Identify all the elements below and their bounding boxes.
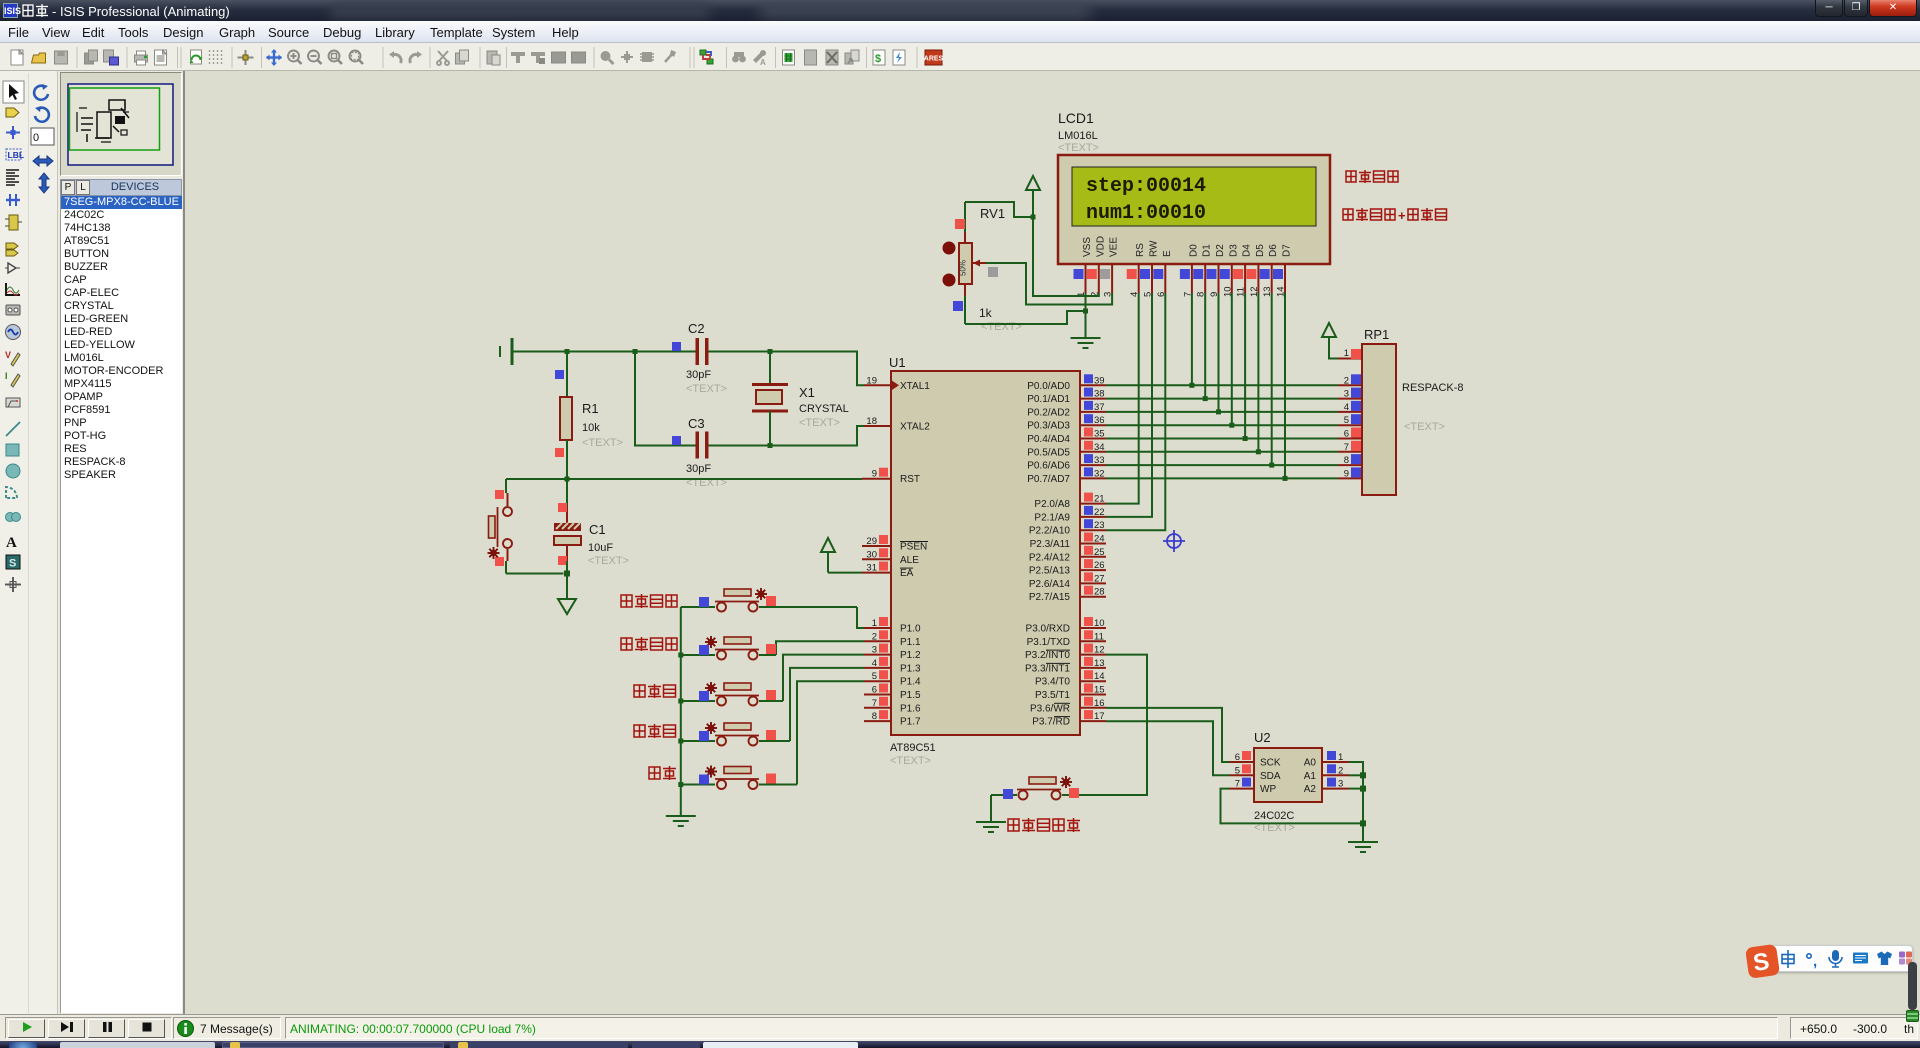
svg-text:D3: D3	[1228, 244, 1239, 257]
resistor R1 10k	[555, 352, 623, 480]
ground below LCD VSS	[1071, 338, 1101, 348]
svg-text:37: 37	[1094, 402, 1105, 413]
svg-text:30pF: 30pF	[686, 463, 711, 475]
svg-text:9: 9	[872, 469, 877, 480]
svg-text:50%: 50%	[959, 260, 968, 276]
svg-text:P2.4/A12: P2.4/A12	[1029, 552, 1071, 563]
lcd pin 13 D6	[1260, 264, 1274, 297]
svg-text:P1.3: P1.3	[900, 663, 921, 674]
svg-text:30pF: 30pF	[686, 369, 711, 381]
lcd pin 12 D5	[1246, 264, 1260, 297]
svg-text:P3.6/WR: P3.6/WR	[1030, 703, 1070, 714]
svg-text:WP: WP	[1260, 784, 1276, 795]
svg-text:A: A	[760, 58, 766, 67]
svg-text:A2: A2	[1304, 784, 1317, 795]
annotation store index and value	[1343, 208, 1447, 223]
pin 33 P0.6/AD6	[1027, 454, 1106, 472]
svg-text:11: 11	[1094, 631, 1104, 642]
svg-text:D4: D4	[1242, 244, 1253, 257]
svg-text:A: A	[6, 535, 17, 551]
lcd text line2 num1:00010	[1086, 202, 1206, 225]
svg-text:8: 8	[872, 711, 877, 722]
lcd pin 3 VEE	[1100, 264, 1114, 297]
svg-text:P0.1/AD1: P0.1/AD1	[1027, 394, 1070, 405]
push button clear-store	[681, 588, 864, 628]
svg-text:PSEN: PSEN	[900, 542, 927, 553]
pin 27 P2.6/A14	[1029, 572, 1106, 590]
svg-text:U2: U2	[1254, 730, 1271, 745]
u2 pin 2 A1	[1304, 764, 1349, 782]
svg-text:P0.0/AD0: P0.0/AD0	[1027, 381, 1070, 392]
rp1 pin 3	[1338, 388, 1362, 400]
lcd pin 4 RS	[1127, 264, 1141, 297]
wire VEE to RV1 wiper	[986, 263, 1112, 305]
eeprom U2 24C02C body	[1254, 730, 1322, 834]
svg-text:VSS: VSS	[1082, 237, 1093, 257]
svg-text:<TEXT>: <TEXT>	[588, 555, 629, 567]
wire RV1 bottom to ground net	[965, 311, 1086, 324]
junction rail	[678, 653, 683, 658]
lcd pin 5 RW	[1140, 264, 1154, 297]
junction WP-ground	[1360, 820, 1366, 826]
pin 18 XTAL2	[864, 416, 930, 433]
wire P0.3 to RP1 pin 5	[1106, 424, 1338, 426]
wire RV1 top to VCC	[965, 202, 1033, 217]
lcd pin names	[1082, 236, 1293, 257]
svg-text:13: 13	[1094, 658, 1105, 669]
wire LCD D0 down to bus	[1191, 293, 1193, 385]
pin 12 P3.2/INT0	[1025, 644, 1106, 662]
svg-text:10: 10	[1094, 618, 1105, 629]
svg-text:6: 6	[1235, 752, 1240, 763]
junction A2	[1360, 786, 1366, 792]
junction RST at R1/C1	[565, 477, 570, 482]
svg-text:D6: D6	[1268, 244, 1279, 257]
rp1 pin 4	[1338, 401, 1362, 413]
pin 29 PSEN	[862, 535, 928, 553]
wire LCD D1 down to bus	[1204, 293, 1206, 399]
svg-text:5: 5	[872, 671, 877, 682]
push button previous	[681, 655, 864, 706]
wire P0.6 to RP1 pin 8	[1106, 464, 1338, 466]
svg-text:<TEXT>: <TEXT>	[1058, 142, 1099, 154]
u2 pin 6 SCK	[1230, 751, 1281, 769]
svg-text:P1.4: P1.4	[900, 677, 921, 688]
capacitor C1 10uF electrolytic	[554, 479, 629, 574]
svg-text:22: 22	[1094, 507, 1105, 518]
svg-text:<TEXT>: <TEXT>	[686, 383, 727, 395]
junction C3 wire at crystal bottom	[768, 443, 773, 448]
svg-text:17: 17	[1094, 711, 1105, 722]
pin 37 P0.2/AD2	[1027, 401, 1106, 419]
svg-text:P1.7: P1.7	[900, 717, 921, 728]
wire U2 WP to ground rail	[1221, 789, 1364, 824]
svg-text:10uF: 10uF	[588, 542, 613, 554]
svg-text:21: 21	[1094, 494, 1105, 505]
junction D4	[1243, 436, 1248, 441]
power arrow at EA	[821, 538, 862, 573]
wire VDD to VCC	[1033, 190, 1099, 296]
lcd pin 9 D2	[1207, 264, 1221, 297]
pin 10 P3.0/RXD	[1026, 617, 1106, 635]
pin 13 P3.3/INT1	[1025, 657, 1106, 675]
svg-text:P2.7/A15: P2.7/A15	[1029, 592, 1071, 603]
svg-text:P3.4/T0: P3.4/T0	[1035, 677, 1070, 688]
wire P0.7 to RP1 pin 9	[1106, 477, 1338, 479]
lcd LCD1 LM016L	[1058, 110, 1330, 264]
pin 11 P3.1/TXD	[1027, 630, 1106, 648]
label clear-steps	[621, 637, 677, 651]
wire LCD D6 down to bus	[1271, 293, 1273, 465]
svg-text:P2.0/A8: P2.0/A8	[1034, 499, 1070, 510]
pin 4 P1.3	[864, 657, 921, 675]
pin 16 P3.6/WR	[1030, 697, 1106, 715]
label clear-store	[621, 594, 677, 608]
svg-text:P1.6: P1.6	[900, 703, 921, 714]
pin 24 P2.3/A11	[1030, 533, 1106, 551]
wire RST net	[506, 478, 862, 480]
svg-text:P3.1/TXD: P3.1/TXD	[1027, 637, 1070, 648]
svg-text:P3.2/INT0: P3.2/INT0	[1025, 650, 1070, 661]
wire RS to P2.0	[1106, 293, 1139, 504]
svg-text:CRYSTAL: CRYSTAL	[799, 403, 849, 415]
svg-text:RESPACK-8: RESPACK-8	[1402, 382, 1464, 394]
svg-text:V: V	[5, 350, 11, 360]
svg-text:39: 39	[1094, 375, 1105, 386]
wire P0.4 to RP1 pin 6	[1106, 438, 1338, 440]
pin 9 RST	[862, 468, 920, 486]
rp1 pin 1	[1338, 348, 1362, 359]
pin 14 P3.4/T0	[1035, 670, 1106, 688]
pin 8 P1.7	[864, 710, 921, 728]
svg-text:P3.7/RD: P3.7/RD	[1032, 717, 1070, 728]
svg-text:I: I	[5, 371, 8, 381]
svg-text:A1: A1	[1304, 771, 1317, 782]
svg-text:5: 5	[1235, 765, 1240, 776]
junction on VCC rail at C3 branch	[633, 349, 638, 354]
svg-text:26: 26	[1094, 560, 1105, 571]
potentiometer RV1 1k	[943, 202, 1022, 333]
svg-text:P0.4/AD4: P0.4/AD4	[1027, 434, 1070, 445]
svg-text:1: 1	[1344, 348, 1349, 359]
svg-text:step:00014: step:00014	[1086, 175, 1206, 198]
pin 35 P0.4/AD4	[1027, 428, 1106, 446]
ground vibration sensor	[976, 822, 1006, 832]
svg-text:P3.0/RXD: P3.0/RXD	[1026, 624, 1070, 635]
ground button rail	[666, 816, 696, 826]
junction A1	[1360, 772, 1366, 778]
wire U2 A0-A2 to ground	[1349, 762, 1363, 842]
svg-text:D1: D1	[1202, 244, 1213, 257]
svg-text:D0: D0	[1188, 244, 1199, 257]
lcd pin 10 D3	[1220, 264, 1234, 297]
junction rail	[678, 782, 683, 787]
svg-text:32: 32	[1094, 468, 1105, 479]
pin 19 XTAL1	[864, 375, 930, 392]
svg-text:7: 7	[1344, 442, 1349, 453]
svg-text:<TEXT>: <TEXT>	[1404, 421, 1445, 433]
svg-text:C1: C1	[589, 522, 606, 537]
rp1 pin 6	[1338, 428, 1362, 440]
svg-text:31: 31	[866, 563, 877, 574]
wire P0.5 to RP1 pin 7	[1106, 451, 1338, 453]
rp1 pin 2	[1338, 374, 1362, 386]
svg-text:7: 7	[872, 698, 877, 709]
svg-text:D7: D7	[1282, 244, 1293, 257]
svg-text:2: 2	[1338, 765, 1343, 776]
svg-text:+: +	[1398, 208, 1406, 223]
wire LCD D4 down to bus	[1244, 293, 1246, 439]
svg-text:3: 3	[1344, 389, 1349, 400]
wire P3.7 to U2 SDA	[1106, 721, 1230, 775]
wire C2 right to XTAL1	[709, 352, 865, 386]
svg-text:RP1: RP1	[1364, 327, 1389, 342]
pin 30 ALE	[862, 548, 919, 566]
label previous	[634, 684, 676, 698]
svg-text:30: 30	[866, 549, 877, 560]
lcd pin 8 D1	[1193, 264, 1207, 297]
wire P0.0 to RP1 pin 2	[1106, 384, 1338, 386]
svg-text:R1: R1	[582, 401, 599, 416]
lcd pin 6 E	[1153, 264, 1167, 297]
svg-text:LCD1: LCD1	[1058, 110, 1094, 126]
u2 pin 1 A0	[1304, 751, 1349, 769]
svg-text:P3.5/T1: P3.5/T1	[1035, 690, 1070, 701]
svg-text:EA: EA	[900, 568, 914, 579]
resistor pack RP1 RESPACK-8	[1362, 327, 1464, 495]
wire P0.2 to RP1 pin 4	[1106, 411, 1338, 413]
svg-text:10k: 10k	[582, 422, 600, 434]
wire E to P2.2	[1106, 293, 1165, 530]
wire VCC rail down to C3	[635, 352, 696, 446]
svg-text:VDD: VDD	[1095, 236, 1106, 257]
junction VCC-RV1	[1031, 215, 1036, 220]
svg-text:24C02C: 24C02C	[1254, 810, 1294, 822]
svg-text:ALE: ALE	[900, 555, 919, 566]
pin 25 P2.4/A12	[1029, 546, 1106, 564]
wire LCD D3 down to bus	[1231, 293, 1233, 425]
lcd pin 14 D7	[1273, 264, 1287, 297]
svg-text:<TEXT>: <TEXT>	[890, 755, 931, 767]
pin 3 P1.2	[864, 644, 921, 662]
svg-text:14: 14	[1094, 671, 1105, 682]
svg-text:P2.5/A13: P2.5/A13	[1029, 566, 1071, 577]
svg-text:P1.1: P1.1	[900, 637, 921, 648]
junction D2	[1216, 409, 1221, 414]
pin 31 EA	[862, 562, 914, 580]
label store	[649, 766, 676, 780]
wire C3 right to XTAL2	[709, 426, 865, 446]
svg-text:0: 0	[33, 132, 39, 144]
svg-text:28: 28	[1094, 587, 1105, 598]
junction C1 bottom	[564, 571, 570, 577]
svg-text:U1: U1	[889, 355, 906, 370]
pin 32 P0.7/AD7	[1027, 467, 1106, 485]
capacitor C3 30pF	[672, 416, 727, 489]
wire RW to P2.1	[1106, 293, 1152, 517]
svg-text:3: 3	[872, 645, 877, 656]
mouse crosshair cursor	[1163, 530, 1185, 552]
svg-text:34: 34	[1094, 442, 1105, 453]
svg-text:8: 8	[1344, 455, 1349, 466]
wire P3.2 to vibration sensor	[1080, 655, 1147, 795]
svg-text:RST: RST	[900, 474, 920, 485]
label vibration sensor	[1008, 818, 1080, 832]
svg-text:$: $	[875, 53, 881, 65]
wire LCD D2 down to bus	[1218, 293, 1220, 412]
svg-text:33: 33	[1094, 455, 1105, 466]
svg-text:num1:00010: num1:00010	[1086, 202, 1206, 225]
svg-text:19: 19	[866, 375, 877, 386]
pin 17 P3.7/RD	[1032, 710, 1106, 728]
push button next	[681, 668, 864, 746]
svg-text:P0.5/AD5: P0.5/AD5	[1027, 447, 1070, 458]
junction D1	[1203, 396, 1208, 401]
junction on VCC rail at crystal branch	[768, 349, 773, 354]
wire button common rail	[680, 607, 682, 815]
svg-text:<TEXT>: <TEXT>	[981, 321, 1022, 333]
lcd pin 7 D0	[1180, 264, 1194, 297]
push button clear-steps	[681, 636, 864, 660]
junction on VCC rail at R1 top	[565, 349, 570, 354]
wire VCC rail to C2 left	[512, 351, 696, 353]
svg-text:RS: RS	[1135, 243, 1146, 257]
svg-text:29: 29	[866, 536, 877, 547]
pin 26 P2.5/A13	[1029, 559, 1106, 577]
svg-text:5: 5	[1344, 415, 1349, 426]
svg-text:P2.2/A10: P2.2/A10	[1029, 526, 1071, 537]
capacitor C2 30pF	[672, 321, 727, 395]
svg-text:P2.3/A11: P2.3/A11	[1030, 539, 1071, 550]
svg-text:P0.2/AD2: P0.2/AD2	[1027, 407, 1070, 418]
pin 2 P1.1	[864, 630, 921, 648]
svg-text:9: 9	[1344, 468, 1349, 479]
push button store	[681, 681, 864, 789]
pin 34 P0.5/AD5	[1027, 441, 1106, 459]
junction D3	[1229, 423, 1234, 428]
svg-text:RV1: RV1	[980, 206, 1005, 221]
wire VSS to ground	[1085, 293, 1087, 338]
svg-text:P1.2: P1.2	[900, 650, 921, 661]
svg-text:E: E	[1162, 250, 1173, 257]
lcd pin 11 D4	[1233, 264, 1247, 297]
svg-text:P1.5: P1.5	[900, 690, 921, 701]
pin 36 P0.3/AD3	[1027, 414, 1106, 432]
push button reset	[488, 479, 564, 574]
pin 7 P1.6	[864, 697, 921, 715]
svg-text:6: 6	[1344, 429, 1349, 440]
rp1 pin 7	[1338, 441, 1362, 453]
svg-text:2: 2	[872, 631, 877, 642]
wire LCD D5 down to bus	[1257, 293, 1259, 452]
svg-text:P0.3/AD3: P0.3/AD3	[1027, 421, 1070, 432]
lcd pin 2 VDD	[1087, 264, 1101, 297]
svg-text:X1: X1	[799, 385, 815, 400]
svg-text:P2.6/A14: P2.6/A14	[1029, 579, 1071, 590]
svg-text:15: 15	[1094, 685, 1105, 696]
annotation current steps	[1346, 170, 1398, 183]
wire C1 bottom to ground arrow	[566, 574, 568, 599]
svg-text:7: 7	[1235, 779, 1240, 790]
u2 pin 7 WP	[1230, 778, 1277, 796]
pin 38 P0.1/AD1	[1027, 388, 1106, 406]
junction D6	[1269, 463, 1274, 468]
ground U2	[1348, 842, 1378, 852]
svg-text:6: 6	[872, 685, 877, 696]
svg-text:D5: D5	[1255, 244, 1266, 257]
svg-text:RW: RW	[1149, 240, 1160, 257]
svg-text:18: 18	[866, 416, 877, 427]
mcu U1 AT89C51 body	[889, 355, 1080, 767]
u2 pin 5 SDA	[1230, 764, 1281, 782]
wire vibration button to ground	[990, 795, 992, 822]
svg-text:23: 23	[1094, 520, 1105, 531]
wire P0.1 to RP1 pin 3	[1106, 398, 1338, 400]
junction D5	[1256, 449, 1261, 454]
pin 28 P2.7/A15	[1029, 586, 1106, 604]
ground arrow below C1	[558, 599, 576, 614]
svg-text:P0.6/AD6: P0.6/AD6	[1027, 461, 1070, 472]
svg-text:2: 2	[1344, 375, 1349, 386]
svg-text:SDA: SDA	[1260, 771, 1281, 782]
power arrow LCD VCC	[1026, 176, 1040, 190]
svg-text:C3: C3	[688, 416, 705, 431]
svg-text:24: 24	[1094, 534, 1105, 545]
svg-text:4: 4	[872, 658, 877, 669]
wire P3.6 to U2 SCK	[1106, 708, 1230, 762]
power arrow RP1	[1322, 323, 1338, 359]
pin 21 P2.0/A8	[1034, 493, 1106, 511]
pin 6 P1.5	[864, 684, 921, 702]
power terminal VCC (crystal rail)	[500, 338, 512, 365]
wire LCD D7 down to bus	[1284, 293, 1286, 478]
svg-text:1k: 1k	[979, 306, 993, 320]
svg-text:1: 1	[1338, 752, 1343, 763]
svg-text:VEE: VEE	[1109, 237, 1120, 257]
svg-text:LBL: LBL	[8, 150, 25, 160]
pin 15 P3.5/T1	[1035, 684, 1106, 702]
pin 1 P1.0	[864, 617, 921, 635]
svg-text:S: S	[9, 558, 16, 570]
pin 23 P2.2/A10	[1029, 519, 1106, 537]
svg-text:<TEXT>: <TEXT>	[582, 437, 623, 449]
svg-text:SCK: SCK	[1260, 758, 1281, 769]
crystal X1	[752, 352, 849, 446]
rp1 pin 9	[1338, 467, 1362, 479]
svg-text:<TEXT>: <TEXT>	[799, 417, 840, 429]
svg-text:P0.7/AD7: P0.7/AD7	[1027, 474, 1070, 485]
svg-text:1: 1	[872, 618, 877, 629]
label next	[634, 724, 676, 738]
svg-text:XTAL2: XTAL2	[900, 422, 930, 433]
svg-text:XTAL1: XTAL1	[900, 381, 930, 392]
pin 22 P2.1/A9	[1034, 506, 1106, 524]
svg-text:D2: D2	[1215, 244, 1226, 257]
junction rail	[678, 699, 683, 704]
svg-text:38: 38	[1094, 389, 1105, 400]
rp1 pin 8	[1338, 454, 1362, 466]
svg-text:3: 3	[1338, 779, 1343, 790]
svg-text:16: 16	[1094, 698, 1105, 709]
svg-text:,: ,	[1813, 953, 1817, 970]
u2 pin 3 A2	[1304, 778, 1349, 796]
rp1 pin 5	[1338, 414, 1362, 426]
svg-text:35: 35	[1094, 429, 1105, 440]
push button vibration sensor	[991, 776, 1080, 800]
svg-text:C2: C2	[688, 321, 705, 336]
svg-text:36: 36	[1094, 415, 1105, 426]
svg-text:LM016L: LM016L	[1058, 130, 1098, 142]
